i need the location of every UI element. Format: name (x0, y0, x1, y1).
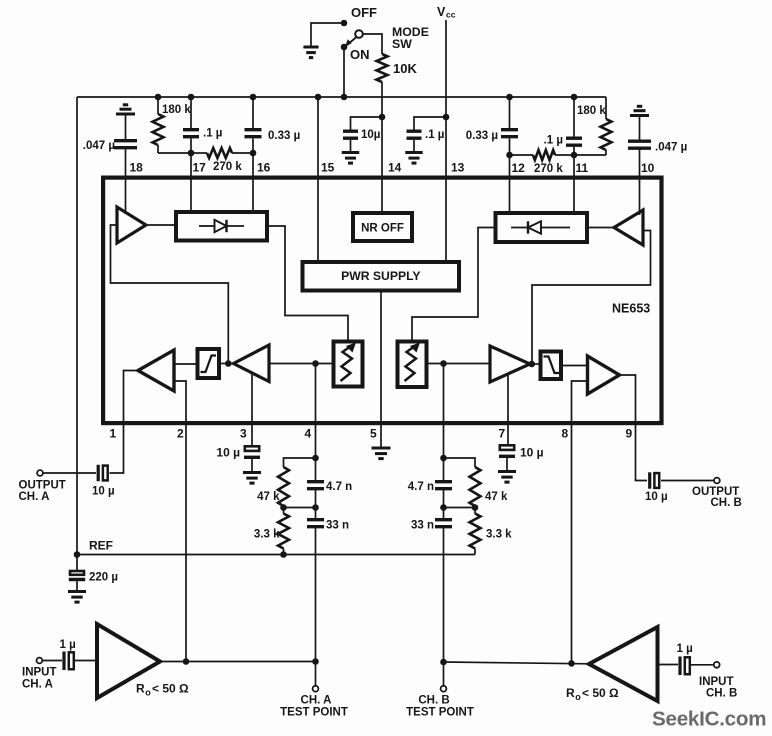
wire pin16 bus to cap (252, 97, 254, 130)
svg-text:1 µ: 1 µ (677, 643, 693, 655)
wire pin17 bus to cap (190, 97, 192, 130)
wire 3.3k A to REF (283, 549, 285, 555)
ground (pin 3 cap) (243, 473, 261, 484)
svg-text:NR OFF: NR OFF (361, 223, 404, 235)
ground (pin 7 cap) (498, 472, 516, 483)
limiter curve A (201, 356, 217, 373)
wire pin4 column mid (315, 489, 317, 518)
svg-text:ON: ON (350, 47, 370, 62)
svg-text:< 50 Ω: < 50 Ω (152, 682, 189, 696)
svg-text:9: 9 (626, 427, 633, 441)
diode D1 (199, 225, 215, 227)
NR OFF box (353, 213, 412, 241)
svg-text:V: V (437, 5, 446, 19)
svg-text:1: 1 (110, 427, 117, 441)
wire A1 input path (111, 225, 229, 364)
svg-text:10 µ: 10 µ (216, 446, 240, 460)
detector box U1a (diode, ch A) (176, 212, 267, 241)
resistor R3 270k (191, 152, 207, 154)
svg-text:0.33 µ: 0.33 µ (466, 130, 498, 142)
svg-text:SeekIC.com: SeekIC.com (652, 708, 766, 731)
svg-text:R: R (136, 682, 145, 696)
wire cap to ground (350, 140, 352, 153)
ground (pin13 cap) (405, 153, 422, 164)
junction 47k-3.3k B (472, 504, 479, 511)
wire A2 to attenuator A (269, 363, 333, 365)
wire cap to ground (413, 140, 415, 153)
capacitor C14 10u (output B) (648, 472, 651, 488)
wire 180k to node17 (158, 152, 191, 154)
junction pin 4 node (312, 360, 319, 367)
node OFF terminal (341, 20, 348, 27)
svg-text:REF: REF (89, 539, 113, 553)
terminal CH B test point (441, 686, 447, 692)
wire C1 to pin 18 amp (125, 149, 127, 214)
wire B2 to limiter B (530, 363, 539, 365)
svg-text:10 µ: 10 µ (645, 491, 668, 503)
wire pin 11 into IC (573, 155, 575, 213)
ground (pin 5) (372, 448, 391, 459)
wire pin12 bus to cap (509, 97, 511, 130)
wire C17 to ground (76, 581, 78, 591)
resistor R7 3.3k (ch A) (278, 514, 289, 549)
junction pin6-47k (440, 455, 447, 462)
svg-text:12: 12 (512, 161, 526, 175)
wire REF to C17 (76, 555, 78, 571)
svg-text:R: R (566, 686, 575, 700)
wire PWR SUPPLY to pin 5 (380, 293, 382, 449)
svg-text:15: 15 (321, 161, 335, 175)
op-amp A1 (ch A input amp) (117, 207, 146, 243)
op-amp B3 (ch B line amp) (588, 356, 620, 394)
attenuator box U1e (ch B) (398, 342, 427, 388)
capacitor C16 33n (ch B) (435, 520, 452, 527)
wire pin6 column lower (443, 527, 445, 662)
svg-text:220 µ: 220 µ (89, 572, 118, 584)
svg-text:cc: cc (446, 10, 456, 20)
capacitor C9 0.33u (pin 12) (501, 130, 518, 137)
svg-text:18: 18 (130, 161, 144, 175)
svg-text:10 µ: 10 µ (92, 486, 115, 498)
wire pin 12 into IC (509, 155, 511, 213)
junction bus-pin16 (250, 94, 257, 101)
capacitor C3 0.33u (pin 16) (245, 130, 262, 137)
svg-text:TEST POINT: TEST POINT (406, 707, 474, 719)
capacitor C19 1u (input B) (678, 657, 681, 676)
svg-text:8: 8 (562, 427, 569, 441)
svg-text:10K: 10K (393, 61, 417, 76)
svg-text:3.3 k: 3.3 k (254, 529, 280, 541)
resistor R8 47k (ch B) (470, 467, 481, 506)
limiter box U1f (ch B) (541, 352, 562, 380)
detector box U1b (diode, ch B) (496, 213, 588, 242)
wire limiter B to B3 (563, 365, 588, 367)
wire A3 out to pin 1 (110, 371, 139, 474)
svg-text:1 µ: 1 µ (60, 639, 76, 651)
node ON terminal (341, 44, 348, 51)
IC U1 NE653 outline (103, 178, 661, 424)
wire pin 7 from B2 (507, 373, 509, 445)
terminal INPUT CH A (37, 658, 43, 664)
wire terminal to C18 (42, 660, 62, 662)
junction bus-switch (341, 94, 348, 101)
wire detector B to B1 (589, 227, 614, 229)
wire pin 17 into IC (190, 153, 192, 212)
svg-text:11: 11 (576, 161, 589, 175)
wire gnd to C1 (125, 114, 127, 139)
junction B chain (529, 361, 536, 368)
wire amp A output line (160, 661, 316, 663)
attenuator box U1d (ch A) (334, 342, 363, 387)
svg-text:270 k: 270 k (534, 163, 563, 175)
junction bus-pin12 (506, 94, 513, 101)
junction node12 (506, 152, 513, 159)
wire RC link B (444, 507, 476, 509)
wire pin 15 to PWR SUPPLY (317, 97, 319, 262)
junction bus-180k A (155, 94, 162, 101)
junction node16 (250, 150, 257, 157)
capacitor C12 10u (pin 7) (500, 445, 514, 450)
terminal OUTPUT CH A (37, 470, 43, 476)
svg-text:TEST POINT: TEST POINT (280, 707, 348, 719)
svg-text:NE653: NE653 (612, 302, 650, 316)
svg-text:3: 3 (240, 427, 247, 441)
svg-text:.1 µ: .1 µ (425, 129, 444, 141)
svg-text:13: 13 (451, 161, 465, 175)
wire 47k branch B (444, 458, 476, 467)
limiter curve B (544, 357, 560, 374)
svg-text:7: 7 (499, 427, 506, 441)
svg-text:47 k: 47 k (485, 491, 508, 503)
junction pin14 node (379, 114, 386, 121)
capacitor C15 4.7n (ch B) (435, 482, 452, 489)
svg-text:4.7 n: 4.7 n (326, 481, 352, 493)
resistor R6 47k (ch A) (278, 467, 289, 506)
wire 47k to 3.3k A (283, 506, 285, 514)
svg-text:33 n: 33 n (326, 520, 349, 532)
resistor R5 270k (510, 154, 534, 156)
attenuator arrow B (405, 346, 417, 381)
capacitor C4 10u (pin 3) (245, 446, 259, 451)
wire B3 feedback pin 8 (572, 381, 588, 663)
wire left REF riser (76, 97, 78, 555)
limiter box U1c (ch A) (198, 349, 220, 378)
wire A3 feedback pin 2 (174, 381, 186, 662)
capacitor C10 .1u (pin 11) (566, 138, 582, 145)
svg-text:CH. B: CH. B (418, 695, 449, 707)
svg-text:CH. B: CH. B (706, 688, 737, 700)
junction pin4-47k (312, 455, 319, 462)
attenuator arrow A (341, 346, 353, 381)
svg-text:.047 µ: .047 µ (83, 140, 115, 152)
junction pin2-ampA (183, 658, 190, 665)
wire OFF to ground (311, 23, 344, 47)
svg-text:33 n: 33 n (411, 520, 434, 532)
junction 47k-3.3k A (280, 504, 287, 511)
wire amp B output line (444, 662, 590, 664)
wire C9 to node (509, 138, 511, 155)
capacitor C13 10u (output A) (97, 465, 100, 481)
wire 47k to 3.3k B (474, 506, 476, 514)
resistor R4 180k (605, 97, 607, 119)
svg-text:CH. B: CH. B (711, 497, 742, 509)
terminal INPUT CH B (714, 662, 720, 668)
wire C10 to node (573, 147, 575, 155)
junction pin6-testpoint B (440, 659, 447, 666)
svg-text:.1 µ: .1 µ (203, 128, 222, 140)
capacitor C11 .047u (pin 10) (628, 141, 651, 148)
wire REF line (77, 554, 475, 556)
ground (220u) (68, 592, 86, 603)
wire pin 3 from A2 (251, 373, 253, 446)
junction bus-pin11 (571, 94, 578, 101)
capacitor C18 1u (input A) (62, 652, 65, 671)
svg-text:270 k: 270 k (213, 161, 242, 173)
wire 3.3k B to REF (474, 549, 476, 555)
wire C4 to ground (251, 459, 253, 473)
svg-text:PWR SUPPLY: PWR SUPPLY (341, 269, 420, 283)
svg-text:10 µ: 10 µ (520, 446, 544, 460)
wire pin 16 into IC (252, 153, 254, 212)
svg-text:CH. A: CH. A (301, 695, 332, 707)
svg-text:10µ: 10µ (361, 129, 380, 141)
wire terminal to C13 (43, 472, 96, 474)
svg-text:2: 2 (177, 427, 184, 441)
capacitor C1 .047u (pin 18) (114, 141, 137, 148)
svg-text:47 k: 47 k (257, 491, 280, 503)
wire detector B to attenuator B (412, 228, 494, 342)
junction A chain (225, 360, 232, 367)
wire C11 to pin 10 amp (639, 149, 641, 215)
capacitor C7 4.7n (ch A) (307, 482, 324, 489)
junction bus-pin17 (188, 94, 195, 101)
wire C14 to terminal (661, 480, 714, 482)
svg-text:o: o (145, 688, 151, 698)
resistor R9 3.3k (ch B) (470, 514, 481, 549)
svg-text:< 50 Ω: < 50 Ω (582, 686, 619, 700)
svg-text:SW: SW (392, 37, 412, 51)
svg-text:OFF: OFF (351, 5, 377, 20)
junction bus-pin15 (315, 94, 322, 101)
op-amp A2 (ch A) (234, 345, 270, 382)
wire pin13 cap branch (414, 117, 446, 130)
op-amp B2 (ch B) (490, 346, 530, 382)
wire attenuator B to B2 (429, 363, 491, 365)
wire C18 to amp A (75, 660, 96, 662)
svg-text:16: 16 (257, 161, 271, 175)
ground (switch OFF) (303, 47, 318, 58)
op-amp B1 (ch B input amp) (614, 210, 643, 245)
ground above C11 (inverted) (630, 106, 649, 115)
wire Vcc line to pin 13 / PWR SUPPLY (445, 20, 447, 260)
svg-text:0.33 µ: 0.33 µ (268, 130, 300, 142)
wire top bus (77, 96, 606, 98)
op-amp U2 power amp A (97, 624, 160, 698)
wire switch to 10K (363, 34, 382, 54)
wire ON to bus (343, 47, 345, 97)
wire 10K to pin 14 / NR OFF (381, 82, 383, 211)
junction pin4-testpoint A (312, 658, 319, 665)
wire C19 to terminal (691, 664, 714, 666)
svg-text:INPUT: INPUT (22, 667, 57, 679)
ground (pin14 cap) (342, 153, 359, 164)
junction pin13 node (443, 114, 450, 121)
svg-text:INPUT: INPUT (699, 676, 734, 688)
wire RC link A (284, 507, 316, 509)
svg-text:.1 µ: .1 µ (544, 135, 563, 147)
wire pin4 column lower (315, 527, 317, 661)
wire detector A to attenuator A (269, 226, 348, 341)
op-amp U3 power amp B (589, 627, 658, 701)
resistor R2 180k (157, 97, 159, 114)
capacitor C17 220u (70, 571, 84, 575)
wire test point B (443, 662, 445, 686)
junction REF 3.3k A (280, 551, 287, 558)
capacitor C5 10u (pin 14) (343, 131, 358, 138)
svg-text:CH. A: CH. A (19, 491, 50, 503)
wire C2 to node (190, 138, 192, 153)
junction pin 6 node (440, 360, 447, 367)
svg-text:.047 µ: .047 µ (655, 142, 687, 154)
svg-text:14: 14 (388, 161, 402, 175)
junction pin4-33n (312, 504, 319, 511)
capacitor C8 33n (ch A) (307, 520, 324, 527)
terminal CH A test point (313, 686, 319, 692)
capacitor C6 .1u (pin 13) (407, 131, 422, 138)
wire amp B to C19 (660, 664, 679, 666)
junction node17 (188, 150, 195, 157)
wire pin 4 column upper (315, 364, 317, 481)
wire A3 in from limiter (174, 363, 197, 365)
svg-text:OUTPUT: OUTPUT (19, 480, 66, 492)
svg-text:4.7 n: 4.7 n (408, 481, 434, 493)
wire A1 out to detector (146, 224, 176, 226)
svg-text:180 k: 180 k (162, 104, 191, 116)
diode D2 (511, 227, 528, 229)
wire C3 to node (252, 138, 254, 153)
wire gnd to C11 (639, 116, 641, 140)
svg-text:5: 5 (370, 427, 377, 441)
svg-text:180 k: 180 k (577, 105, 606, 117)
junction pin8-ampB (568, 660, 575, 667)
terminal OUTPUT CH B (714, 478, 720, 484)
wire test point A (315, 662, 317, 687)
wire B1 input path (532, 231, 651, 365)
capacitor C2 .1u (pin 17) (183, 130, 199, 137)
switch SW1 mode switch (355, 30, 363, 38)
wire C12 to ground (506, 458, 508, 472)
junction pin6-33n (440, 504, 447, 511)
wire 180k to node11 (574, 154, 606, 156)
svg-text:4: 4 (305, 427, 312, 441)
PWR SUPPLY box (303, 262, 460, 291)
svg-text:3.3 k: 3.3 k (486, 529, 512, 541)
wire pin 6 column upper (443, 364, 445, 481)
svg-text:10: 10 (641, 161, 655, 175)
wire pin11 bus to cap (573, 97, 575, 137)
svg-text:CH. A: CH. A (22, 679, 53, 691)
resistor R1 10K (377, 54, 388, 82)
junction REF left (74, 551, 81, 558)
wire 47k branch A (284, 458, 316, 467)
junction node11 (571, 152, 578, 159)
svg-text:17: 17 (193, 161, 207, 175)
wire pin14 cap branch (351, 117, 383, 130)
svg-text:o: o (575, 692, 581, 702)
op-amp A3 (ch A line amp) (138, 350, 174, 391)
wire pin6 column mid (443, 489, 445, 518)
ground above C1 (inverted) (116, 105, 135, 114)
wire B3 out to pin 9 (620, 375, 648, 481)
wire limiter A node (221, 363, 234, 365)
